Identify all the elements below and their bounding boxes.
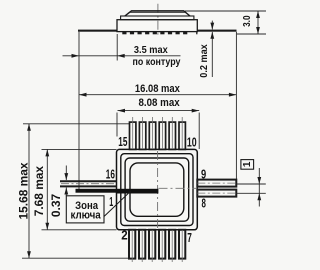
pin 9 [197, 180, 236, 187]
svg-text:15.68 max: 15.68 max [16, 162, 30, 219]
svg-text:7.68 max: 7.68 max [32, 166, 46, 217]
pin 16 [60, 180, 117, 182]
pin 2 [129, 230, 135, 259]
body right lower edge stub [196, 32, 198, 35]
lid top plate [125, 11, 190, 16]
pin 8 centerline [197, 192, 236, 194]
svg-text:3.5 max: 3.5 max [134, 44, 168, 56]
pin 8 [197, 190, 236, 197]
svg-text:10: 10 [187, 136, 197, 150]
pin 10 [179, 122, 185, 149]
svg-text:9: 9 [201, 167, 206, 181]
pin 13 [149, 122, 155, 149]
lead bumps row under body [122, 32, 187, 35]
svg-text:по контуру: по контуру [133, 56, 181, 68]
pin 11 [169, 122, 175, 149]
dim line vertical [257, 11, 259, 34]
pin 9 extension line [236, 183, 265, 185]
package body (side) [117, 20, 197, 32]
pin 9 centerline [197, 182, 236, 184]
svg-text:3.0: 3.0 [241, 15, 253, 27]
lead bar left [78, 30, 117, 32]
svg-text:16: 16 [106, 168, 115, 182]
side view centerline [157, 4, 159, 37]
top ext [42, 148, 117, 150]
svg-text:ключа: ключа [70, 210, 101, 222]
ext top from lid [185, 10, 266, 12]
svg-text:1: 1 [242, 161, 253, 167]
pin 12 [159, 122, 165, 149]
bottom ext [22, 257, 129, 259]
svg-text:15: 15 [118, 135, 127, 149]
lead bar right [197, 30, 236, 32]
body outline R1 [117, 149, 198, 229]
svg-text:2: 2 [121, 228, 127, 242]
horizontal centerline (right of key bar) [159, 187, 198, 189]
ext bottom [237, 33, 266, 35]
lid outline R4 [130, 163, 184, 216]
svg-text:8: 8 [202, 197, 206, 211]
top ext [23, 123, 129, 125]
svg-text:0.2 max: 0.2 max [198, 44, 210, 78]
svg-text:7: 7 [187, 231, 192, 245]
svg-text:8.08 max: 8.08 max [139, 97, 181, 109]
key zone bar inside body [117, 189, 159, 194]
lid outline R2 [121, 154, 193, 226]
lid outline R3 [125, 158, 189, 221]
dim line [118, 110, 200, 112]
right ext [198, 113, 200, 150]
lid flange (side) [121, 16, 194, 20]
extension line left (also 16.08 left ext), long vertical [78, 32, 80, 189]
pin 6 [169, 230, 175, 259]
pin 7 [179, 230, 185, 259]
dim line 3.5 [63, 55, 181, 57]
right ext line long [235, 32, 237, 180]
pin 16 centerline [61, 183, 117, 185]
pin 1 (key lead, solid) [76, 189, 117, 193]
pin 4 [149, 230, 155, 259]
svg-text:1: 1 [109, 195, 113, 209]
vertical centerline [157, 151, 159, 230]
bottom ext [42, 229, 117, 231]
pin 3 [139, 230, 145, 259]
pin 5 [159, 230, 165, 259]
framed note 1 box [241, 160, 254, 170]
lid plate underside line [130, 11, 186, 13]
left ext [116, 113, 118, 137]
pin 15 [130, 122, 136, 149]
svg-text:16.08 max: 16.08 max [135, 83, 181, 95]
leader line [104, 191, 131, 216]
svg-text:0.37: 0.37 [49, 194, 63, 218]
dim line [46, 149, 48, 229]
pin 8 extension line [236, 192, 265, 194]
dim line [28, 124, 30, 258]
dim line [79, 94, 236, 96]
extension line at body left edge [116, 34, 118, 61]
pin 14 [139, 122, 145, 149]
label box [66, 196, 104, 223]
